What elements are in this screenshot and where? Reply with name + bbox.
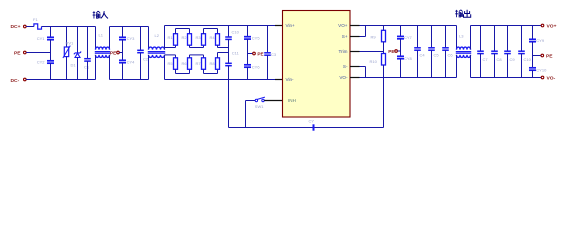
wire C6 top lead xyxy=(445,26,447,48)
terminal PE mid-right xyxy=(253,52,256,55)
resistor R7 xyxy=(202,58,206,70)
capacitor C3 xyxy=(264,52,271,54)
capacitor CY11 (inline) xyxy=(313,124,315,130)
wire L1 bottom-right lead xyxy=(109,55,111,80)
svg-text:S+: S+ xyxy=(342,34,348,39)
svg-text:F1: F1 xyxy=(33,17,38,22)
svg-text:C10: C10 xyxy=(232,29,240,34)
wire C5 bottom lead xyxy=(431,50,433,77)
wire primary negative drop xyxy=(228,80,230,128)
terminal PE mid-left xyxy=(117,51,120,54)
svg-text:VO-: VO- xyxy=(339,75,348,80)
wire S- dropper xyxy=(360,66,366,68)
wire output negative drop xyxy=(383,78,385,128)
wire PE stub far right xyxy=(533,55,541,57)
wire C2 top lead xyxy=(140,27,142,51)
wire C4 top lead xyxy=(417,26,419,48)
capacitor CY7 xyxy=(397,35,404,37)
wire C3 bottom lead xyxy=(267,55,269,79)
resistor R8 xyxy=(216,58,220,70)
svg-text:INH: INH xyxy=(288,98,296,103)
wire CY2 bottom lead xyxy=(50,63,52,79)
capacitor CY4 xyxy=(119,59,126,61)
terminal VO+ xyxy=(541,24,544,27)
wire R9 top stub xyxy=(383,26,385,31)
wire network left vertical xyxy=(164,26,166,48)
svg-text:CY7: CY7 xyxy=(404,35,413,40)
wire RV1 top lead xyxy=(66,27,68,48)
capacitor CY8 xyxy=(397,55,404,57)
wire R9 bottom stub xyxy=(383,42,385,52)
inductor L3 xyxy=(457,47,471,50)
wire mid rail (network to IC) xyxy=(165,25,276,27)
wire PE stub mid-right xyxy=(248,53,253,55)
svg-text:L1: L1 xyxy=(99,32,104,37)
wire CY1 top lead xyxy=(50,27,52,38)
wire C8 out bottom lead xyxy=(494,54,496,78)
wire CY9 top lead xyxy=(532,26,534,40)
capacitor CY6 xyxy=(244,64,251,66)
svg-text:VO-: VO- xyxy=(547,76,556,82)
wire CY5 top lead xyxy=(247,26,249,37)
wire Vin- pin stub xyxy=(275,79,283,81)
svg-text:CY6: CY6 xyxy=(252,64,261,69)
inductor L1 xyxy=(96,47,110,50)
wire L1 bottom-left lead xyxy=(95,55,97,80)
svg-text:CY5: CY5 xyxy=(252,35,261,40)
capacitor C10 out xyxy=(518,50,525,52)
wire Trim link xyxy=(360,51,384,53)
svg-text:RV1: RV1 xyxy=(66,40,74,45)
wire R4 bottom link to mid node xyxy=(217,45,219,47)
wire CY4 bottom lead xyxy=(122,63,124,80)
wire R5-R6 bottom bridge xyxy=(175,69,177,73)
varistor RV1 xyxy=(64,47,68,57)
wire CY7-CY8 mid lead xyxy=(400,39,402,57)
capacitor CY1 xyxy=(47,36,54,38)
wire PE to CY column xyxy=(26,52,50,54)
wire C1 bottom lead xyxy=(87,61,89,79)
capacitor CY9 xyxy=(529,38,536,40)
capacitor CY5 xyxy=(244,36,251,38)
wire PE stub output xyxy=(398,50,401,52)
svg-text:CY2: CY2 xyxy=(37,60,46,65)
resistor R6 xyxy=(188,58,192,70)
resistor R4 xyxy=(216,34,220,46)
wire R1 bottom link xyxy=(165,47,176,49)
capacitor C10 xyxy=(225,36,232,38)
svg-text:Vin-: Vin- xyxy=(286,77,295,82)
diode D1 xyxy=(74,52,81,55)
resistor R1 xyxy=(174,34,178,46)
wire INH pin stub xyxy=(264,100,282,102)
wire C4 bottom lead xyxy=(417,50,419,77)
wire C9 out bottom lead xyxy=(507,54,509,78)
wire R2-R3 bottom bridge xyxy=(189,45,191,47)
wire L1 top-left lead xyxy=(95,27,97,50)
wire R7-R8 bottom bridge xyxy=(203,69,205,73)
svg-text:R10: R10 xyxy=(370,59,378,64)
wire C7 out top lead xyxy=(480,26,482,52)
terminal PE output right xyxy=(541,54,544,57)
capacitor C11 xyxy=(225,62,232,64)
svg-text:C1: C1 xyxy=(84,65,90,70)
wire C1 top lead xyxy=(87,27,89,59)
svg-text:CY10: CY10 xyxy=(536,67,547,72)
capacitor CY3 xyxy=(119,36,126,38)
svg-text:R4: R4 xyxy=(210,35,216,40)
svg-text:CY: CY xyxy=(309,118,315,123)
wire L2 top-right lead xyxy=(164,26,166,50)
wire output top bus after L3 xyxy=(471,25,542,27)
wire PE stub to CY column xyxy=(119,52,122,54)
svg-text:PE: PE xyxy=(546,54,553,60)
terminal PE input xyxy=(24,51,27,54)
wire S+ riser xyxy=(360,36,366,38)
wire L2 bottom-right lead to R5 xyxy=(164,55,166,80)
wire R10 bottom stub xyxy=(383,65,385,78)
wire top bus after L1 xyxy=(110,26,149,28)
wire CY9-CY10 mid lead xyxy=(532,42,534,68)
capacitor CY2 xyxy=(47,60,54,62)
wire input bottom bus (DC- to L1) xyxy=(26,79,95,81)
svg-text:C10: C10 xyxy=(524,57,532,62)
wire C8 out top lead xyxy=(494,26,496,52)
svg-text:C8: C8 xyxy=(497,57,503,62)
svg-text:SW1: SW1 xyxy=(255,104,264,109)
capacitor C7 out xyxy=(477,50,484,52)
wire S+ pin stub xyxy=(350,36,360,38)
wire Trim pin stub xyxy=(350,51,360,53)
terminal VO- xyxy=(541,76,544,79)
svg-text:R2: R2 xyxy=(182,35,188,40)
resistor R5 xyxy=(174,58,178,70)
svg-text:C4: C4 xyxy=(420,53,426,58)
capacitor CY10 xyxy=(529,67,536,69)
wire switch left lead xyxy=(246,100,256,102)
wire C2 bottom lead xyxy=(140,53,142,80)
svg-text:R5: R5 xyxy=(168,61,174,66)
capacitor C2 xyxy=(137,49,144,51)
svg-text:L3: L3 xyxy=(459,34,464,39)
svg-text:L2: L2 xyxy=(155,33,160,38)
wire C10 out bottom lead xyxy=(521,54,523,78)
resistor R3 xyxy=(202,34,206,46)
wire C7 out bottom lead xyxy=(480,54,482,78)
svg-text:S-: S- xyxy=(343,64,348,69)
wire Vin+ pin stub xyxy=(275,25,283,27)
wire S- pin stub xyxy=(350,66,360,68)
svg-text:CY4: CY4 xyxy=(127,59,136,64)
wire C6 bottom lead xyxy=(445,50,447,77)
svg-text:DC-: DC- xyxy=(11,78,20,84)
terminal PE output mid xyxy=(395,50,398,53)
svg-text:R7: R7 xyxy=(196,61,202,66)
wire L3 bottom-right lead xyxy=(470,55,472,78)
svg-text:CY9: CY9 xyxy=(536,38,545,43)
terminal DC- xyxy=(24,78,27,81)
capacitor C5 xyxy=(428,47,435,49)
wire D1 bottom lead xyxy=(77,58,79,80)
svg-text:R8: R8 xyxy=(210,61,216,66)
svg-text:C7: C7 xyxy=(483,57,489,62)
svg-text:Vin+: Vin+ xyxy=(286,23,296,28)
wire C9 out top lead xyxy=(507,26,509,52)
wire bottom return xyxy=(229,127,384,129)
wire C10 out top lead xyxy=(521,26,523,52)
terminal DC+ xyxy=(24,25,27,28)
svg-text:PE: PE xyxy=(14,51,21,57)
wire R5 top stub xyxy=(175,55,177,58)
svg-text:PE: PE xyxy=(388,49,394,54)
wire L3 top-left lead xyxy=(456,26,458,50)
svg-text:Trim: Trim xyxy=(338,49,347,54)
svg-text:CY8: CY8 xyxy=(404,56,413,61)
svg-text:R9: R9 xyxy=(371,35,377,40)
wire L2 bottom-left lead xyxy=(148,55,150,80)
resistor R2 xyxy=(188,34,192,46)
svg-text:CY3: CY3 xyxy=(127,36,136,41)
wire switch drop xyxy=(245,101,247,128)
inductor L2 xyxy=(149,47,165,50)
svg-text:VO+: VO+ xyxy=(338,23,348,28)
wire RV1 bottom lead xyxy=(66,57,68,80)
svg-text:VO+: VO+ xyxy=(547,24,557,30)
svg-text:C6: C6 xyxy=(448,53,454,58)
wire output bottom bus xyxy=(360,77,457,79)
wire L3 bottom-left lead xyxy=(456,55,458,78)
wire L3 top-right lead xyxy=(470,26,472,50)
svg-text:C9: C9 xyxy=(510,57,516,62)
svg-text:CY1: CY1 xyxy=(37,36,46,41)
svg-text:PE: PE xyxy=(257,52,263,57)
svg-text:R3: R3 xyxy=(196,35,202,40)
resistor R9 xyxy=(382,30,386,42)
wire output top bus xyxy=(360,25,457,27)
svg-text:R6: R6 xyxy=(182,61,188,66)
switch SW1 xyxy=(255,99,257,101)
capacitor C1 xyxy=(84,58,91,60)
wire L1 top-right lead xyxy=(109,27,111,50)
wire C5 top lead xyxy=(431,26,433,48)
title: input label 输入 (drawn glyphs) xyxy=(93,11,101,18)
capacitor C6 xyxy=(442,47,449,49)
wire CY7 top lead xyxy=(400,26,402,37)
wire D1 top lead xyxy=(77,27,79,53)
svg-text:PE: PE xyxy=(110,51,116,56)
wire CY3 top lead xyxy=(122,27,124,38)
svg-text:DC+: DC+ xyxy=(11,24,21,30)
svg-text:R1: R1 xyxy=(168,35,174,40)
wire C11 bottom lead xyxy=(228,66,230,80)
wire CY3-CY4 mid lead xyxy=(122,40,124,61)
wire CY1-CY2 mid lead xyxy=(50,40,52,61)
wire R8 top link to mid node xyxy=(217,53,219,58)
wire R1-R2 top bridge xyxy=(176,28,190,30)
fuse F1 xyxy=(34,24,42,29)
wire CY5-CY6 mid lead xyxy=(247,39,249,65)
resistor R10 xyxy=(382,54,386,66)
op-amp U1 (DC-DC module body) xyxy=(283,11,351,118)
svg-text:C5: C5 xyxy=(434,53,440,58)
wire C10-C11 mid lead xyxy=(228,39,230,63)
wire CY8 bottom lead xyxy=(400,59,402,78)
wire C3 top lead xyxy=(267,26,269,53)
wire CY6 bottom lead xyxy=(247,67,249,79)
wire L2 top-left lead xyxy=(148,27,150,50)
capacitor C4 xyxy=(414,47,421,49)
wire R3-R4 top bridge xyxy=(204,28,218,30)
capacitor C8 out xyxy=(491,50,498,52)
wire R10 top stub xyxy=(383,52,385,54)
wire input top bus (fuse to L1) xyxy=(42,26,96,28)
wire bottom bus after L1 xyxy=(110,79,149,81)
capacitor C9 out xyxy=(504,50,511,52)
wire VO- pin stub xyxy=(350,77,360,79)
svg-text:D1: D1 xyxy=(71,62,77,67)
svg-text:C3: C3 xyxy=(271,52,277,57)
wire CY10 bottom lead xyxy=(532,70,534,77)
wire C10 top lead xyxy=(228,26,230,38)
wire R6-R7 top bridge xyxy=(189,55,191,58)
wire VO+ pin stub xyxy=(350,25,360,27)
svg-text:C11: C11 xyxy=(232,51,240,56)
title: output label 输出 (drawn glyphs) xyxy=(455,10,462,17)
wire DC+ to fuse xyxy=(26,26,34,28)
